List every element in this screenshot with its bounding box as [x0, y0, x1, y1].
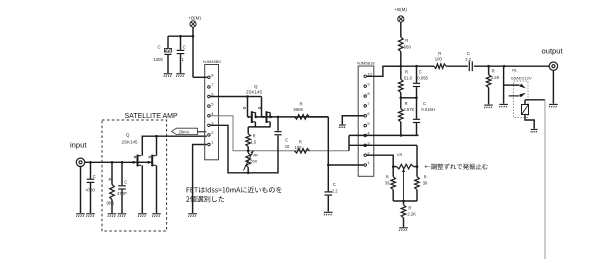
svg-text:R: R [299, 140, 302, 145]
svg-text:51.0: 51.0 [404, 76, 413, 81]
svg-text:4700: 4700 [86, 188, 96, 193]
svg-text:Q: Q [126, 133, 130, 138]
svg-text:2.2K: 2.2K [407, 212, 416, 217]
svg-text:(80): (80) [107, 201, 115, 206]
svg-text:470P: 470P [117, 191, 127, 196]
svg-text:+B(M): +B(M) [395, 7, 408, 12]
svg-text:2SK145: 2SK145 [246, 90, 263, 95]
svg-text:C: C [467, 51, 470, 56]
svg-text:C: C [93, 174, 96, 179]
svg-text:39: 39 [423, 181, 428, 186]
svg-text:100: 100 [295, 145, 303, 150]
svg-text:560: 560 [404, 45, 412, 50]
svg-text:R: R [405, 70, 408, 75]
svg-text:C: C [183, 45, 186, 50]
svg-text:NJM45BD: NJM45BD [203, 59, 221, 64]
svg-text:C: C [419, 70, 422, 75]
svg-text:C: C [333, 182, 336, 187]
svg-text:R: R [438, 51, 441, 56]
svg-text:C: C [423, 101, 426, 106]
svg-text:R: R [424, 175, 427, 180]
svg-text:RL: RL [512, 68, 518, 73]
svg-text:VR: VR [397, 152, 403, 157]
svg-text:Q: Q [254, 84, 258, 89]
svg-text:1000: 1000 [154, 57, 164, 62]
svg-text:input: input [70, 141, 87, 150]
svg-text:output: output [542, 47, 564, 56]
svg-text:C: C [158, 45, 161, 50]
svg-text:R: R [492, 69, 495, 74]
svg-text:G5ADC12V: G5ADC12V [511, 75, 532, 80]
svg-text:R: R [386, 175, 389, 180]
svg-text:2.2: 2.2 [465, 57, 471, 62]
svg-text:VR: VR [252, 153, 258, 158]
svg-text:R: R [300, 102, 303, 107]
svg-text:R: R [408, 206, 411, 211]
svg-text:500: 500 [250, 159, 257, 164]
svg-text:2.2K: 2.2K [491, 75, 500, 80]
svg-text:4.57K: 4.57K [403, 107, 414, 112]
svg-text:+B(M): +B(M) [189, 16, 202, 21]
svg-text:20mA: 20mA [179, 129, 190, 134]
svg-text:560K: 560K [294, 107, 304, 112]
svg-text:SATELLITE AMP: SATELLITE AMP [125, 113, 178, 120]
svg-text:2SK145: 2SK145 [122, 140, 139, 145]
svg-text:0.016H: 0.016H [421, 107, 435, 112]
svg-text:100: 100 [435, 57, 443, 62]
svg-text:R: R [405, 101, 408, 106]
svg-text:NJM5B18: NJM5B18 [357, 61, 375, 66]
svg-text:10: 10 [285, 144, 290, 149]
svg-text:R: R [253, 134, 256, 139]
svg-text:39: 39 [385, 181, 390, 186]
svg-text:1.5: 1.5 [250, 140, 256, 145]
svg-text:R: R [405, 38, 408, 43]
svg-text:C: C [124, 180, 127, 185]
svg-text:R: R [109, 177, 112, 182]
svg-text:C: C [285, 138, 288, 143]
svg-text:2.2: 2.2 [332, 189, 338, 194]
svg-text:0.056: 0.056 [417, 76, 428, 81]
